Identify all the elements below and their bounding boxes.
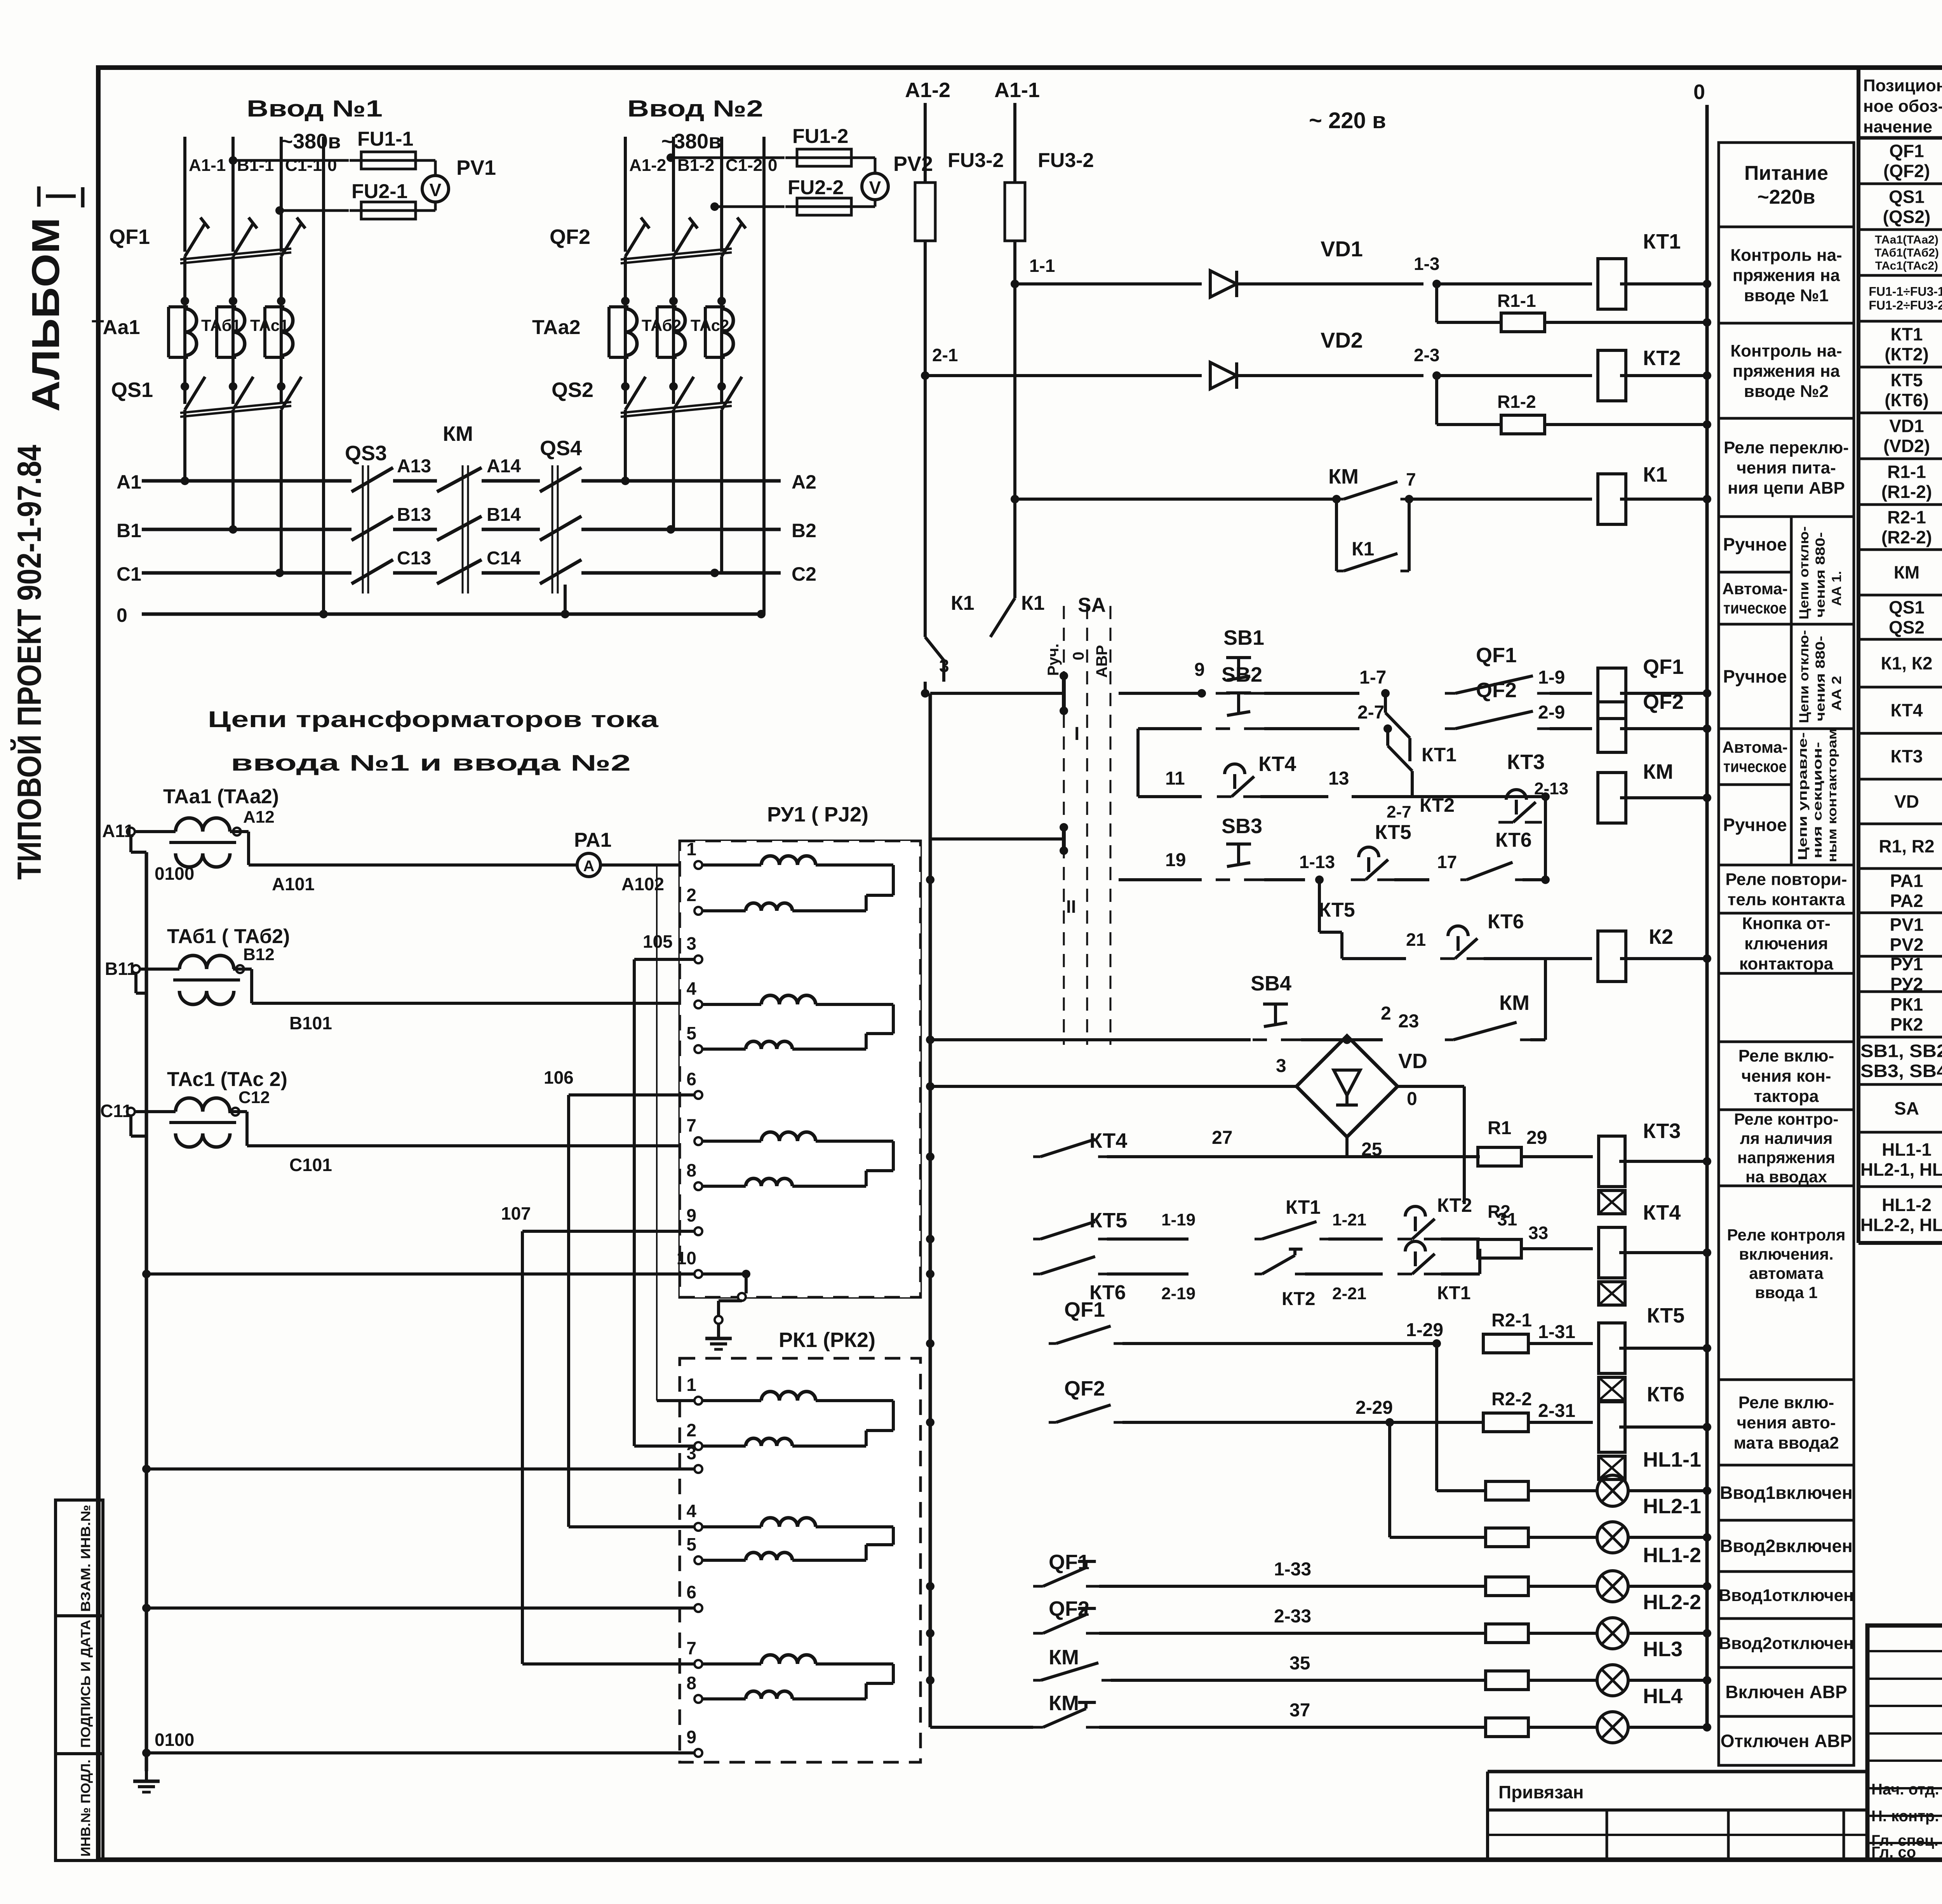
svg-text:включения.: включения. [1739,1245,1833,1263]
svg-text:ВЗАМ. ИНВ.№: ВЗАМ. ИНВ.№ [78,1505,93,1612]
svg-text:тическое: тическое [1723,757,1787,775]
svg-text:Цепи трансформаторов тока: Цепи трансформаторов тока [208,707,659,732]
svg-text:пряжения на: пряжения на [1733,362,1840,381]
svg-text:РУ1: РУ1 [1890,954,1923,974]
svg-text:ТАб2: ТАб2 [642,316,681,334]
svg-text:С12: С12 [238,1088,270,1107]
svg-text:КМ: КМ [1049,1692,1079,1715]
svg-text:РУ2: РУ2 [1890,974,1923,994]
svg-text:КМ: КМ [443,422,473,446]
svg-text:23: 23 [1398,1011,1419,1032]
svg-text:35: 35 [1289,1653,1310,1674]
svg-text:А2: А2 [792,471,816,493]
svg-text:А102: А102 [621,874,664,894]
svg-text:6: 6 [686,1069,696,1089]
svg-text:1-1: 1-1 [1029,256,1055,276]
svg-text:FU3-2: FU3-2 [948,149,1004,172]
svg-text:ТАс1 (ТАс 2): ТАс1 (ТАс 2) [167,1068,287,1091]
svg-text:QF1: QF1 [1064,1298,1105,1321]
svg-text:2-33: 2-33 [1274,1606,1311,1627]
svg-text:0: 0 [327,156,337,175]
svg-text:Ввод1отключен: Ввод1отключен [1719,1586,1853,1605]
svg-text:Цепи управле-: Цепи управле- [1796,732,1810,860]
svg-text:13: 13 [1328,768,1349,789]
svg-text:Гл. со: Гл. со [1871,1844,1916,1861]
svg-text:QF2: QF2 [1476,679,1517,702]
svg-text:Кнопка от-: Кнопка от- [1742,914,1831,933]
svg-text:R1-1: R1-1 [1887,461,1926,482]
svg-text:К1: К1 [1643,463,1667,486]
svg-text:ввода №1 и ввода №2: ввода №1 и ввода №2 [231,750,631,776]
svg-text:ТАа1(ТАа2): ТАа1(ТАа2) [1875,233,1939,246]
svg-text:КТ1: КТ1 [1643,230,1681,253]
svg-text:С13: С13 [397,548,431,569]
svg-text:мата ввода2: мата ввода2 [1733,1433,1839,1452]
svg-text:КТ2: КТ2 [1437,1194,1472,1216]
svg-text:Привязан: Привязан [1498,1782,1584,1802]
svg-text:Ввод №1: Ввод №1 [247,96,383,122]
svg-text:Контроль на-: Контроль на- [1730,341,1842,360]
svg-text:ТАа2: ТАа2 [532,316,581,339]
svg-text:7: 7 [686,1115,696,1135]
svg-text:17: 17 [1437,852,1457,872]
svg-text:0100: 0100 [155,1730,194,1750]
svg-text:29: 29 [1526,1128,1547,1148]
svg-text:10: 10 [677,1248,696,1268]
svg-text:В1-1: В1-1 [237,156,274,175]
svg-text:4: 4 [686,978,696,999]
svg-text:А101: А101 [272,874,315,894]
svg-text:В11: В11 [105,959,137,979]
svg-text:9: 9 [686,1727,696,1747]
svg-text:PV2: PV2 [1890,935,1924,955]
svg-text:HL2-1, HL3: HL2-1, HL3 [1860,1159,1942,1180]
svg-text:ввода 1: ввода 1 [1755,1283,1817,1302]
svg-text:I: I [1074,724,1079,744]
svg-text:PV1: PV1 [456,156,496,179]
svg-text:на вводах: на вводах [1745,1168,1827,1186]
svg-text:8: 8 [686,1673,696,1693]
svg-text:(КТ6): (КТ6) [1885,390,1929,410]
svg-text:АЛЬБОМ: АЛЬБОМ [24,218,68,412]
svg-text:тическое: тическое [1723,599,1787,617]
svg-text:FU1-1: FU1-1 [357,128,413,150]
svg-text:QS2: QS2 [552,378,593,402]
svg-text:QS4: QS4 [540,437,582,460]
svg-text:Нач. отд.: Нач. отд. [1871,1781,1939,1798]
svg-text:7: 7 [686,1638,696,1658]
svg-text:РА1: РА1 [1890,870,1923,891]
svg-text:QF2: QF2 [1643,690,1684,714]
svg-text:чения 880-: чения 880- [1813,636,1828,721]
svg-text:HL3: HL3 [1643,1638,1683,1661]
svg-text:II: II [1066,896,1076,917]
svg-text:Отключен АВР: Отключен АВР [1721,1731,1852,1751]
svg-text:ТАб1(ТАб2): ТАб1(ТАб2) [1874,247,1939,259]
svg-text:HL4: HL4 [1643,1685,1683,1708]
svg-text:1-21: 1-21 [1332,1210,1366,1229]
svg-text:чения кон-: чения кон- [1741,1067,1831,1086]
svg-text:19: 19 [1165,850,1186,870]
svg-text:КТ3: КТ3 [1891,746,1923,766]
svg-text:Ввод2отключен: Ввод2отключен [1719,1634,1853,1653]
svg-text:РУ1 ( РJ2): РУ1 ( РJ2) [767,803,868,826]
svg-text:3: 3 [686,933,696,954]
svg-text:QS1: QS1 [1889,597,1925,617]
svg-text:QF2: QF2 [1064,1377,1105,1400]
svg-text:Позицион-: Позицион- [1863,76,1942,95]
svg-text:SA: SA [1078,594,1106,616]
svg-text:HL1-2: HL1-2 [1643,1544,1701,1567]
svg-text:0: 0 [117,604,127,626]
svg-text:КТ2: КТ2 [1282,1289,1316,1309]
svg-text:2-1: 2-1 [932,345,958,365]
svg-text:КТ4: КТ4 [1258,752,1296,776]
svg-text:ния цепи АВР: ния цепи АВР [1728,479,1845,498]
svg-text:FU2-1: FU2-1 [352,180,407,203]
svg-text:5: 5 [686,1023,696,1043]
svg-text:HL1-1: HL1-1 [1643,1448,1701,1471]
svg-text:0: 0 [1407,1089,1417,1109]
svg-text:КТ1: КТ1 [1422,744,1456,766]
svg-text:SB1, SB2,: SB1, SB2, [1860,1041,1942,1061]
svg-text:2-7: 2-7 [1387,802,1411,821]
svg-text:QF1: QF1 [1049,1551,1089,1574]
svg-text:Реле повтори-: Реле повтори- [1725,870,1847,889]
svg-text:37: 37 [1289,1700,1310,1721]
svg-text:КТ4: КТ4 [1643,1201,1681,1224]
svg-text:В101: В101 [289,1013,332,1033]
svg-text:PV2: PV2 [893,152,933,176]
svg-text:А11: А11 [102,821,134,841]
svg-text:11: 11 [1165,768,1185,789]
svg-text:тактора: тактора [1754,1087,1819,1106]
svg-text:вводе №2: вводе №2 [1744,382,1829,401]
svg-text:А1-2: А1-2 [905,78,950,102]
svg-text:РА2: РА2 [1890,891,1923,911]
svg-text:5: 5 [686,1534,696,1554]
svg-text:АА 2: АА 2 [1829,676,1844,711]
svg-text:Цепи отклю-: Цепи отклю- [1797,630,1811,723]
svg-text:Ручное: Ручное [1723,534,1787,555]
svg-text:А13: А13 [397,456,431,477]
svg-text:Ручное: Ручное [1723,815,1787,835]
svg-text:Автома-: Автома- [1722,738,1788,756]
svg-text:Реле контроля: Реле контроля [1727,1225,1846,1244]
svg-text:КТ6: КТ6 [1495,829,1532,851]
svg-text:R1, R2: R1, R2 [1879,836,1934,856]
svg-text:2-9: 2-9 [1538,702,1565,723]
svg-text:HL2-2, HL4: HL2-2, HL4 [1860,1215,1942,1235]
svg-text:КТ6: КТ6 [1647,1383,1684,1406]
svg-text:QF2: QF2 [1049,1597,1089,1620]
svg-text:2-21: 2-21 [1332,1284,1366,1303]
svg-text:С2: С2 [792,563,816,585]
svg-text:ТАс2: ТАс2 [691,316,729,334]
svg-text:Включен АВР: Включен АВР [1725,1682,1847,1702]
svg-text:чения авто-: чения авто- [1737,1413,1836,1432]
svg-text:АА 1.: АА 1. [1829,571,1844,606]
svg-text:QS3: QS3 [345,442,387,465]
svg-text:ным контакторам: ным контакторам [1825,728,1839,862]
svg-text:106: 106 [544,1067,574,1088]
svg-text:~380в: ~380в [661,130,722,153]
svg-text:ТАб1: ТАб1 [201,316,241,334]
svg-text:А1-1: А1-1 [994,78,1040,102]
svg-text:FU1-2: FU1-2 [792,125,848,148]
svg-text:(QF2): (QF2) [1883,161,1930,181]
svg-text:SB3, SB4.: SB3, SB4. [1860,1061,1942,1081]
svg-text:КМ: КМ [1894,562,1919,583]
svg-text:КТ5: КТ5 [1891,370,1923,390]
svg-text:2-31: 2-31 [1538,1401,1575,1421]
svg-text:R2: R2 [1488,1201,1510,1222]
svg-text:QF1: QF1 [1476,644,1517,667]
svg-text:SB1: SB1 [1223,626,1264,649]
svg-text:КТ5: КТ5 [1375,821,1411,844]
svg-text:SA: SA [1894,1098,1919,1119]
svg-text:А1: А1 [117,471,141,493]
svg-text:QS2: QS2 [1889,617,1925,637]
svg-text:9: 9 [686,1205,696,1225]
svg-text:К1: К1 [1352,538,1374,560]
svg-text:В2: В2 [792,520,816,541]
svg-text:автомата: автомата [1749,1264,1824,1282]
svg-text:КТ3: КТ3 [1507,750,1545,774]
svg-text:21: 21 [1406,929,1426,950]
svg-text:В1: В1 [117,520,141,541]
svg-text:ния секцион-: ния секцион- [1810,742,1824,858]
svg-text:SB4: SB4 [1251,972,1291,995]
svg-text:Реле контро-: Реле контро- [1734,1110,1839,1128]
svg-text:SB2: SB2 [1222,663,1262,686]
svg-text:R1: R1 [1488,1118,1511,1138]
svg-text:Руч.: Руч. [1045,644,1062,676]
svg-text:107: 107 [501,1203,531,1224]
svg-text:АВР: АВР [1093,645,1110,678]
svg-text:В14: В14 [487,505,521,525]
svg-text:1-7: 1-7 [1359,667,1386,688]
svg-text:1-33: 1-33 [1274,1559,1311,1580]
svg-text:контактора: контактора [1739,954,1834,973]
svg-text:РК2: РК2 [1890,1014,1923,1034]
svg-text:К1, К2: К1, К2 [1881,653,1933,674]
svg-text:А1-2: А1-2 [629,156,666,175]
svg-text:V: V [430,180,442,200]
svg-text:QS1: QS1 [1889,186,1925,207]
svg-text:VD: VD [1398,1049,1427,1073]
svg-text:ля наличия: ля наличия [1740,1129,1833,1147]
svg-text:(КТ2): (КТ2) [1885,344,1929,364]
svg-text:ТАб1 ( ТАб2): ТАб1 ( ТАб2) [167,925,290,948]
svg-text:(QS2): (QS2) [1883,207,1931,227]
svg-text:ТИПОВОЙ ПРОЕКТ 902-1-97.84: ТИПОВОЙ ПРОЕКТ 902-1-97.84 [10,445,48,880]
svg-text:9: 9 [1194,660,1205,680]
svg-text:(R1-2): (R1-2) [1881,482,1932,502]
svg-text:HL2-1: HL2-1 [1643,1495,1701,1518]
svg-text:Питание: Питание [1744,162,1828,184]
svg-text:напряжения: напряжения [1737,1148,1835,1166]
svg-text:3: 3 [939,656,949,676]
svg-text:КТ5: КТ5 [1319,899,1355,921]
svg-text:V: V [869,178,881,198]
svg-text:1-13: 1-13 [1299,852,1335,872]
svg-text:A: A [583,858,595,875]
svg-text:КТ6: КТ6 [1488,910,1524,933]
svg-text:К1: К1 [951,592,974,614]
svg-text:КМ: КМ [1499,991,1530,1015]
svg-text:КТ5: КТ5 [1647,1304,1684,1327]
svg-text:РА1: РА1 [574,829,612,851]
svg-text:FU2-2: FU2-2 [788,176,844,199]
svg-text:VD: VD [1894,792,1919,812]
svg-text:4: 4 [686,1501,696,1521]
svg-text:ное обоз-: ное обоз- [1863,97,1942,116]
svg-text:QS1: QS1 [111,378,153,402]
svg-text:0100: 0100 [155,863,194,884]
svg-text:(R2-2): (R2-2) [1881,527,1932,547]
svg-text:HL2-2: HL2-2 [1643,1591,1701,1614]
svg-text:2: 2 [686,1420,696,1440]
svg-text:1-19: 1-19 [1161,1210,1195,1229]
svg-text:R1-2: R1-2 [1497,392,1536,412]
svg-text:Н. контр.: Н. контр. [1871,1808,1939,1825]
svg-text:0: 0 [1693,80,1705,104]
svg-text:ТАа1 (ТАа2): ТАа1 (ТАа2) [163,785,279,808]
svg-text:R1-1: R1-1 [1497,291,1536,311]
svg-text:А1-1: А1-1 [189,156,226,175]
svg-text:7: 7 [1406,469,1416,489]
svg-text:Ввод №2: Ввод №2 [627,96,763,122]
svg-text:2-19: 2-19 [1161,1284,1195,1303]
svg-text:ИНВ.№ ПОДЛ.: ИНВ.№ ПОДЛ. [78,1760,93,1857]
svg-text:КМ: КМ [1328,465,1359,488]
svg-text:1: 1 [686,839,696,859]
svg-text:КМ: КМ [1049,1646,1079,1669]
svg-text:Реле вклю-: Реле вклю- [1738,1046,1834,1065]
svg-text:~380в: ~380в [281,130,341,153]
svg-text:QF1: QF1 [1889,141,1924,161]
svg-text:С1-1: С1-1 [285,156,322,175]
svg-text:КТ4: КТ4 [1089,1129,1127,1152]
svg-text:пряжения на: пряжения на [1733,266,1840,285]
svg-text:0: 0 [1070,652,1087,660]
svg-text:QF1: QF1 [1643,655,1684,679]
svg-text:R2-1: R2-1 [1491,1310,1532,1331]
svg-text:FU1-2÷FU3-2: FU1-2÷FU3-2 [1869,298,1942,312]
svg-text:2-3: 2-3 [1414,345,1439,365]
svg-text:2: 2 [686,885,696,905]
svg-text:С14: С14 [487,548,521,569]
svg-text:В12: В12 [243,945,275,964]
svg-text:РК1: РК1 [1890,994,1923,1015]
svg-text:Ручное: Ручное [1723,667,1787,687]
svg-text:FU3-2: FU3-2 [1038,149,1094,172]
svg-text:QF2: QF2 [550,225,590,249]
svg-text:ТАс1: ТАс1 [250,316,289,334]
svg-text:8: 8 [686,1160,696,1180]
svg-text:КТ1: КТ1 [1437,1283,1471,1304]
svg-text:6: 6 [686,1582,696,1602]
svg-text:2-13: 2-13 [1534,779,1568,798]
svg-text:3: 3 [1276,1056,1286,1076]
svg-text:2-29: 2-29 [1356,1398,1393,1418]
svg-text:КТ5: КТ5 [1089,1209,1127,1232]
svg-text:27: 27 [1212,1128,1232,1148]
svg-text:К1: К1 [1021,592,1045,614]
svg-text:1-3: 1-3 [1414,254,1439,274]
svg-text:Реле переклю-: Реле переклю- [1724,438,1849,457]
svg-text:ПОДПИСЬ И ДАТА: ПОДПИСЬ И ДАТА [78,1620,93,1748]
svg-text:А14: А14 [487,456,521,477]
svg-text:тель контакта: тель контакта [1728,890,1845,909]
svg-text:ТАа1: ТАа1 [92,316,140,339]
svg-text:2-7: 2-7 [1357,702,1384,723]
svg-text:А12: А12 [243,808,275,827]
svg-text:~220в: ~220в [1757,186,1815,208]
svg-text:R2-2: R2-2 [1491,1389,1532,1410]
svg-text:HL1-1: HL1-1 [1882,1139,1932,1159]
svg-text:R2-1: R2-1 [1887,507,1926,527]
svg-text:2: 2 [1381,1003,1391,1024]
svg-text:Ввод2включен: Ввод2включен [1720,1536,1853,1556]
svg-text:К2: К2 [1649,925,1673,949]
svg-text:QF1: QF1 [109,225,150,249]
svg-text:С101: С101 [289,1155,332,1175]
svg-text:С1: С1 [117,563,141,585]
svg-text:1-9: 1-9 [1538,667,1565,688]
svg-text:Автома-: Автома- [1722,580,1788,598]
svg-text:Цепи отклю-: Цепи отклю- [1797,526,1811,620]
svg-text:1-31: 1-31 [1538,1322,1575,1342]
svg-text:КТ3: КТ3 [1643,1119,1681,1143]
svg-text:(VD2): (VD2) [1883,436,1930,456]
svg-text:РК1 (РК2): РК1 (РК2) [779,1328,875,1352]
svg-text:HL1-2: HL1-2 [1882,1195,1932,1215]
svg-text:FU1-1÷FU3-1: FU1-1÷FU3-1 [1869,284,1942,298]
svg-text:1: 1 [686,1375,696,1395]
svg-text:КТ1: КТ1 [1891,324,1923,344]
svg-text:1-29: 1-29 [1406,1320,1443,1340]
svg-text:Контроль на-: Контроль на- [1730,245,1842,265]
svg-text:~ 220 в: ~ 220 в [1309,108,1386,133]
svg-text:С11: С11 [100,1101,132,1121]
svg-text:33: 33 [1528,1223,1548,1243]
svg-text:Реле вклю-: Реле вклю- [1738,1393,1834,1412]
svg-text:начение: начение [1863,117,1932,136]
svg-text:КМ: КМ [1643,760,1673,783]
svg-text:ТАс1(ТАс2): ТАс1(ТАс2) [1875,259,1938,272]
svg-text:VD1: VD1 [1889,416,1924,436]
svg-text:105: 105 [643,931,673,952]
svg-text:чения 880-: чения 880- [1813,532,1828,618]
svg-text:VD2: VD2 [1321,328,1363,352]
svg-text:SB3: SB3 [1222,815,1262,838]
svg-text:В13: В13 [397,505,431,525]
svg-text:КТ4: КТ4 [1891,700,1923,721]
svg-text:чения пита-: чения пита- [1737,458,1836,477]
svg-text:КТ2: КТ2 [1643,346,1681,370]
svg-text:PV1: PV1 [1890,914,1924,935]
svg-text:VD1: VD1 [1321,237,1363,261]
svg-text:КТ1: КТ1 [1286,1196,1321,1218]
svg-text:ключения: ключения [1744,934,1828,953]
svg-text:Ввод1включен: Ввод1включен [1720,1483,1853,1503]
svg-text:вводе №1: вводе №1 [1744,286,1829,305]
